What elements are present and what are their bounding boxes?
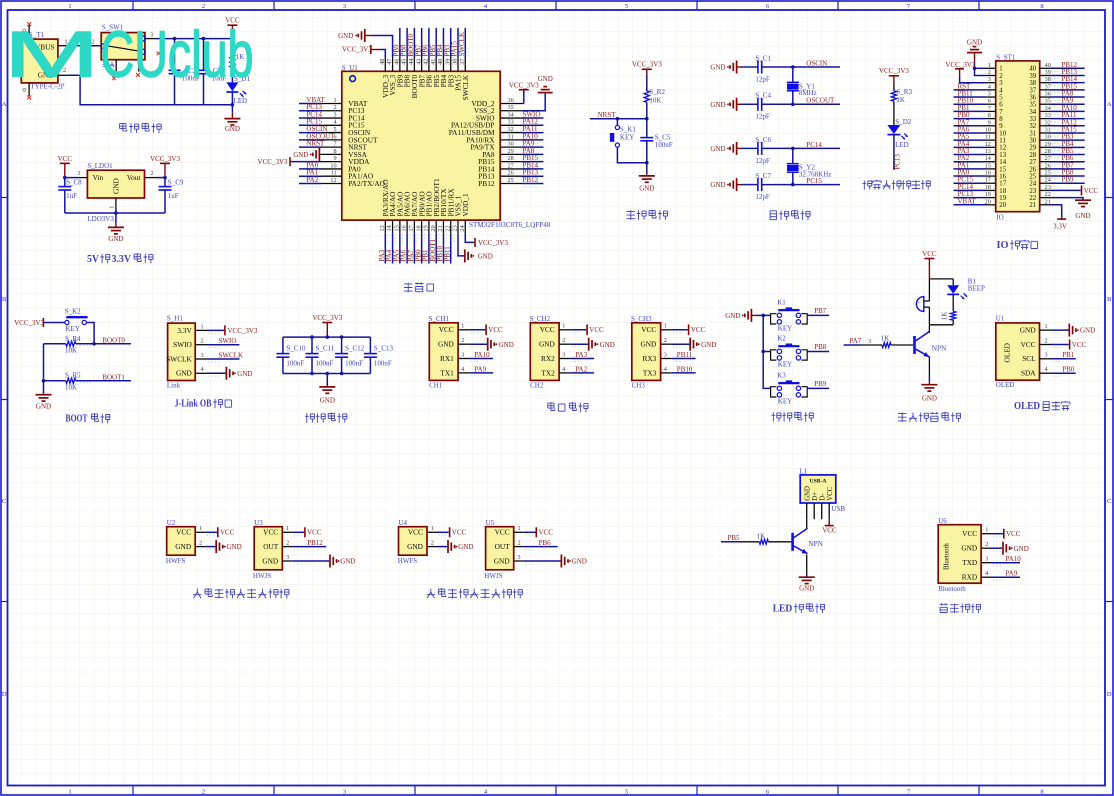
svg-text:VCC_3V3: VCC_3V3 <box>342 46 372 54</box>
svg-text:1: 1 <box>286 525 289 532</box>
serial header S_CH2 <box>530 323 559 381</box>
svg-text:1uF: 1uF <box>66 192 77 200</box>
svg-text:100nF: 100nF <box>655 141 673 149</box>
ST1 pin23 VCC <box>1040 189 1050 191</box>
wire T1 pin1 to SW1 <box>58 45 68 47</box>
svg-text:A: A <box>2 101 7 108</box>
svg-text:TX1: TX1 <box>440 368 454 377</box>
svg-text:29: 29 <box>1029 145 1036 152</box>
svg-text:Bluetooth: Bluetooth <box>938 585 966 593</box>
svg-text:CH1: CH1 <box>429 381 443 389</box>
svg-text:U6: U6 <box>938 517 947 525</box>
svg-text:S_LDO1: S_LDO1 <box>87 162 113 170</box>
svg-text:S_R5: S_R5 <box>65 372 81 380</box>
svg-text:GND: GND <box>176 369 192 378</box>
wire K3 to PB9 <box>807 387 829 389</box>
svg-text:33: 33 <box>1029 116 1036 123</box>
svg-text:KEY: KEY <box>66 325 80 333</box>
svg-text:100nF: 100nF <box>286 359 304 367</box>
svg-text:S_R2: S_R2 <box>649 88 665 96</box>
svg-text:S_H1: S_H1 <box>167 315 183 323</box>
GND rail wire <box>65 212 165 214</box>
svg-text:S_C1: S_C1 <box>755 54 771 62</box>
caption dianyuan-dianlu <box>120 123 127 131</box>
ST1 right pins <box>1040 67 1050 69</box>
svg-text:+: + <box>917 301 920 307</box>
svg-text:VCC_3V3: VCC_3V3 <box>14 319 44 327</box>
ground filter <box>326 374 328 386</box>
svg-text:PB12: PB12 <box>307 539 323 547</box>
svg-text:PB10: PB10 <box>677 365 693 373</box>
svg-text:GND: GND <box>710 145 725 153</box>
svg-text:24: 24 <box>1029 181 1036 188</box>
svg-text:LED: LED <box>234 97 248 105</box>
svg-text:1: 1 <box>461 323 464 330</box>
svg-text:GND: GND <box>1014 545 1029 553</box>
svg-text:32: 32 <box>508 126 514 133</box>
svg-text:12pF: 12pF <box>755 75 770 83</box>
svg-text:GND: GND <box>600 341 615 349</box>
wire D1 to GND <box>231 93 233 113</box>
caption bluetooth module <box>940 603 948 612</box>
S_CH3 pin4 PB10 <box>672 372 696 374</box>
switch SW1 <box>101 33 145 60</box>
svg-text:STM32F103C8T6_LQFP48: STM32F103C8T6_LQFP48 <box>469 221 551 229</box>
U2 pin1 VCC <box>205 531 217 533</box>
caption key circuit <box>772 412 782 422</box>
svg-text:4: 4 <box>562 366 565 373</box>
svg-text:1K: 1K <box>757 532 766 540</box>
svg-text:34: 34 <box>1029 109 1036 116</box>
svg-text:KEY: KEY <box>778 324 792 332</box>
svg-text:S_CH3: S_CH3 <box>631 315 652 323</box>
svg-text:PA9: PA9 <box>1005 570 1017 578</box>
svg-text:3.3V: 3.3V <box>177 326 192 335</box>
svg-text:3: 3 <box>1044 352 1047 359</box>
svg-text:8: 8 <box>1040 789 1043 796</box>
svg-text:VCC: VCC <box>439 325 454 334</box>
svg-text:2: 2 <box>461 337 464 344</box>
svg-text:U2: U2 <box>167 519 176 527</box>
ground keys <box>750 309 752 322</box>
svg-text:100nF: 100nF <box>345 359 363 367</box>
power VCC <box>227 24 237 26</box>
filter top rail <box>283 336 371 338</box>
svg-text:BOOT1: BOOT1 <box>102 373 125 381</box>
alarm top rail <box>929 278 953 280</box>
U3 pin3 GND <box>292 560 329 562</box>
S_CH2 pin3 PA3 <box>570 358 594 360</box>
svg-text:4: 4 <box>999 87 1003 94</box>
svg-text:GND: GND <box>494 556 510 565</box>
svg-text:GND: GND <box>539 340 555 349</box>
svg-text:2: 2 <box>202 3 205 10</box>
caption IR module 1 <box>193 589 201 598</box>
module U3 HWJS <box>254 527 282 570</box>
svg-text:K2: K2 <box>777 335 786 343</box>
svg-text:8: 8 <box>334 148 337 155</box>
svg-text:B: B <box>2 296 7 303</box>
resistor R3 1K <box>891 91 896 101</box>
svg-text:OSCIN: OSCIN <box>806 59 827 67</box>
caption main chip <box>404 283 413 292</box>
svg-text:PA2/TX/AO: PA2/TX/AO <box>348 179 385 188</box>
svg-text:VCC: VCC <box>1021 340 1036 349</box>
svg-text:PB12: PB12 <box>478 179 495 188</box>
svg-text:1: 1 <box>68 789 71 796</box>
svg-text:VCC_3V3: VCC_3V3 <box>312 314 342 322</box>
svg-text:PC13: PC13 <box>894 153 902 169</box>
svg-text:3: 3 <box>562 351 565 358</box>
svg-text:GND: GND <box>407 542 423 551</box>
svg-text:36: 36 <box>1029 94 1036 101</box>
svg-text:VCC_3V3: VCC_3V3 <box>509 82 539 90</box>
svg-text:GND: GND <box>725 312 740 320</box>
svg-text:S_CH2: S_CH2 <box>530 315 551 323</box>
caption program run indicator <box>863 180 872 189</box>
svg-text:IO: IO <box>996 214 1003 222</box>
capacitor C3 10uF <box>203 39 205 71</box>
svg-text:VCC: VCC <box>540 325 555 334</box>
svg-text:GND: GND <box>175 542 191 551</box>
svg-text:M: M <box>4 17 100 90</box>
svg-text:10K: 10K <box>649 97 661 105</box>
svg-text:VCC: VCC <box>589 326 604 334</box>
svg-text:GND: GND <box>967 38 982 46</box>
svg-text:VCC: VCC <box>691 326 706 334</box>
svg-text:NRST: NRST <box>598 111 617 119</box>
wire T1 pin2 to GND rail <box>58 74 68 76</box>
LDO pin1 to rail <box>115 198 117 208</box>
svg-text:VDD_1: VDD_1 <box>461 193 470 216</box>
svg-text:SWIO: SWIO <box>219 337 237 345</box>
svg-text:PB5: PB5 <box>728 534 741 542</box>
svg-text:9: 9 <box>334 155 337 162</box>
ground for LDO <box>115 213 117 223</box>
L1 VCC pin <box>828 519 830 525</box>
svg-text:PB7: PB7 <box>814 307 827 315</box>
svg-text:10K: 10K <box>65 346 77 354</box>
svg-text:4: 4 <box>1044 366 1047 373</box>
OLED pin3 PB1 <box>1051 358 1076 360</box>
svg-text:13: 13 <box>999 152 1006 159</box>
svg-text:D-: D- <box>820 493 827 501</box>
svg-text:25: 25 <box>1029 173 1036 180</box>
svg-text:VCC: VCC <box>1006 530 1021 538</box>
svg-text:U1: U1 <box>996 314 1005 322</box>
svg-text:5V: 5V <box>87 254 99 265</box>
U6 pin3 PA10 <box>992 562 1020 564</box>
svg-text:OLED: OLED <box>1014 401 1040 412</box>
svg-text:31: 31 <box>1029 130 1036 137</box>
svg-text:3: 3 <box>985 556 988 563</box>
svg-text:3: 3 <box>200 352 203 359</box>
svg-text:TX2: TX2 <box>541 368 555 377</box>
S_CH3 pin2 GND <box>672 343 690 345</box>
svg-text:PB9: PB9 <box>814 380 827 388</box>
svg-text:PA7: PA7 <box>850 337 862 345</box>
net NRST wire <box>590 118 647 120</box>
svg-text:GND: GND <box>639 185 654 193</box>
wire D2 to PC13 <box>893 135 895 170</box>
svg-text:VCC: VCC <box>962 529 977 538</box>
svg-text:PB6: PB6 <box>539 539 552 547</box>
svg-text:VCC: VCC <box>1072 341 1087 349</box>
svg-text:2: 2 <box>1044 337 1047 344</box>
wire K2 to PB8 <box>807 351 829 353</box>
S_CH2 pin1 VCC <box>570 329 586 331</box>
svg-text:39: 39 <box>1029 73 1036 80</box>
svg-text:GND: GND <box>237 370 252 378</box>
svg-text:PA2: PA2 <box>306 176 318 184</box>
svg-text:12: 12 <box>999 145 1006 152</box>
svg-text:8MHz: 8MHz <box>799 89 817 97</box>
svg-text:U4: U4 <box>399 519 408 527</box>
svg-text:S_C9: S_C9 <box>168 179 184 187</box>
svg-text:GND: GND <box>108 235 123 243</box>
svg-text:GND: GND <box>225 125 240 133</box>
svg-text:15: 15 <box>999 166 1006 173</box>
svg-text:BEEP: BEEP <box>968 284 985 292</box>
connector L1 USB-A <box>800 475 836 503</box>
svg-text:CH3: CH3 <box>632 381 646 389</box>
svg-text:GND: GND <box>320 396 335 404</box>
OLED pin4 PB0 <box>1051 372 1076 374</box>
svg-text:GND: GND <box>338 32 353 40</box>
svg-text:PA2: PA2 <box>575 365 587 373</box>
svg-text:VCC_3V3: VCC_3V3 <box>478 239 508 247</box>
svg-text:22: 22 <box>1029 195 1036 202</box>
svg-text:10K: 10K <box>65 383 77 391</box>
svg-text:S_C8: S_C8 <box>66 179 82 187</box>
svg-text:NPN: NPN <box>808 539 823 548</box>
svg-text:3: 3 <box>77 170 80 177</box>
svg-text:1: 1 <box>985 527 988 534</box>
svg-text:100nF: 100nF <box>374 359 392 367</box>
svg-text:S_R3: S_R3 <box>896 88 912 96</box>
svg-text:1: 1 <box>200 323 203 330</box>
svg-text:2: 2 <box>562 337 565 344</box>
svg-text:100nF: 100nF <box>316 359 334 367</box>
svg-text:GND: GND <box>36 403 51 411</box>
svg-text:12pF: 12pF <box>755 113 770 121</box>
module U5 HWJS <box>486 527 514 570</box>
header ST1 IO expansion <box>996 61 1040 212</box>
svg-text:S_D2: S_D2 <box>895 118 911 126</box>
svg-text:28: 28 <box>508 155 514 162</box>
left trunk wire <box>43 344 45 394</box>
svg-text:K1: K1 <box>777 298 786 306</box>
svg-text:14: 14 <box>999 159 1006 166</box>
svg-text:RX1: RX1 <box>440 354 454 363</box>
U5 pin2 OUT PB6 <box>524 546 558 548</box>
capacitor C8 1uF <box>64 178 66 187</box>
U3 pin1 VCC <box>292 531 304 533</box>
svg-text:C: C <box>2 498 6 505</box>
svg-text:VCC: VCC <box>1084 187 1099 195</box>
svg-text:PB9: PB9 <box>1062 176 1075 184</box>
svg-text:12pF: 12pF <box>755 193 770 201</box>
module U6 Bluetooth <box>938 525 981 584</box>
svg-text:S_C10: S_C10 <box>286 345 306 353</box>
svg-text:PB8: PB8 <box>814 343 827 351</box>
svg-text:S_C12: S_C12 <box>345 345 365 353</box>
svg-text:GND: GND <box>572 558 587 566</box>
svg-text:VCC_3V3: VCC_3V3 <box>879 67 909 75</box>
svg-text:2: 2 <box>200 338 203 345</box>
H1 pin2 SWIO <box>207 344 239 346</box>
H1 pin3 SWCLK <box>207 358 239 360</box>
svg-text:17: 17 <box>999 181 1006 188</box>
pushbutton K1 KEY <box>616 119 618 126</box>
capacitor C5 100nF <box>646 119 648 138</box>
svg-text:1K: 1K <box>940 312 948 321</box>
wire SW1 pin3 to VCC node <box>145 38 156 40</box>
svg-text:3: 3 <box>517 554 520 561</box>
svg-text:SWCLK: SWCLK <box>166 354 192 363</box>
svg-text:GND: GND <box>710 181 725 189</box>
svg-text:U5: U5 <box>486 519 495 527</box>
svg-text:SCL: SCL <box>1022 354 1036 363</box>
H1 pin4 GND <box>207 372 226 374</box>
svg-text:2: 2 <box>517 540 520 547</box>
svg-text:GND: GND <box>499 341 514 349</box>
svg-text:19: 19 <box>999 195 1006 202</box>
svg-text:S_K1: S_K1 <box>620 125 636 133</box>
svg-text:PB1: PB1 <box>1062 351 1075 359</box>
svg-text:29: 29 <box>508 148 514 155</box>
regulator LDO1 <box>87 170 144 198</box>
svg-text:VCC_3V3: VCC_3V3 <box>632 61 662 69</box>
svg-text:4: 4 <box>664 366 667 373</box>
module U4 HWFS <box>399 527 428 556</box>
svg-text:28: 28 <box>1029 152 1036 159</box>
caption filter circuit <box>305 413 315 423</box>
ST1 pin21 3.3V <box>1040 204 1050 206</box>
svg-text:GND: GND <box>805 486 812 501</box>
svg-text:GND: GND <box>710 101 725 109</box>
capacitor S_C10 100nF <box>282 337 284 354</box>
svg-text:A: A <box>1107 101 1112 108</box>
svg-text:4: 4 <box>200 366 203 373</box>
U6 pin1 VCC <box>992 533 1003 535</box>
svg-text:3.3V: 3.3V <box>1053 222 1067 230</box>
buzzer <box>916 297 923 312</box>
ST1 left pins <box>954 89 986 91</box>
U5 pin3 GND <box>524 560 561 562</box>
T1 bottom pin <box>28 83 30 96</box>
svg-text:31: 31 <box>508 133 514 140</box>
serial header S_CH1 <box>429 323 458 381</box>
crystal Y1 8MHz <box>792 67 794 82</box>
svg-text:J-Link OB: J-Link OB <box>175 399 212 410</box>
serial header S_CH3 <box>632 323 661 381</box>
svg-text:4: 4 <box>985 570 988 577</box>
svg-text:VCC: VCC <box>827 486 834 500</box>
svg-text:1: 1 <box>108 206 115 209</box>
svg-text:SDA: SDA <box>1021 369 1036 378</box>
svg-text:3: 3 <box>343 3 346 10</box>
svg-text:PC14: PC14 <box>806 141 822 149</box>
svg-text:PA3: PA3 <box>575 351 587 359</box>
svg-text:S_C7: S_C7 <box>755 172 771 180</box>
svg-text:VCC: VCC <box>495 528 510 537</box>
svg-text:Vout: Vout <box>127 173 141 182</box>
display U1 OLED <box>996 323 1040 380</box>
wire VCC to LDO Vin <box>65 177 78 179</box>
svg-text:C: C <box>1107 498 1111 505</box>
svg-text:S_C4: S_C4 <box>755 92 771 100</box>
S_CH1 pin1 VCC <box>469 329 485 331</box>
svg-text:32: 32 <box>1029 123 1036 130</box>
svg-text:D+: D+ <box>812 492 819 501</box>
crystal Y2 32.768KHz <box>792 148 794 163</box>
transistor NPN alarm <box>844 344 860 346</box>
U5 pin1 VCC <box>524 531 536 533</box>
svg-text:2: 2 <box>199 540 202 547</box>
svg-text:GND: GND <box>458 543 473 551</box>
svg-text:1: 1 <box>664 323 667 330</box>
svg-text:11: 11 <box>999 138 1006 145</box>
resistor R2 10K <box>644 91 649 103</box>
resistor R1 1K <box>231 39 233 54</box>
svg-text:GND: GND <box>340 558 355 566</box>
svg-text:VBAT: VBAT <box>958 197 977 205</box>
svg-text:3: 3 <box>999 80 1003 87</box>
svg-text:HWJS: HWJS <box>253 572 271 580</box>
svg-text:GND: GND <box>293 151 308 159</box>
svg-text:VCC: VCC <box>539 529 554 537</box>
svg-text:21: 21 <box>1029 202 1036 209</box>
svg-text:2: 2 <box>202 789 205 796</box>
capacitor C2 100nF <box>174 39 176 71</box>
svg-text:U3: U3 <box>254 519 263 527</box>
U4 pin2 GND <box>437 546 447 548</box>
OLED pin2 VCC <box>1051 344 1069 346</box>
U6 pin2 GND <box>992 547 1002 549</box>
collector wire to L1 GND pin <box>806 519 808 528</box>
svg-text:3: 3 <box>664 351 667 358</box>
capacitor S_C12 100nF <box>341 337 343 354</box>
power VCC_3V3 reset <box>642 68 652 70</box>
svg-text:27: 27 <box>1029 159 1036 166</box>
svg-text:1: 1 <box>562 323 565 330</box>
svg-text:6: 6 <box>999 102 1003 109</box>
svg-text:Link: Link <box>167 382 181 390</box>
keys trunk wire <box>763 315 770 388</box>
svg-text:9: 9 <box>999 123 1003 130</box>
svg-text:VCC: VCC <box>822 526 837 534</box>
svg-text:RX2: RX2 <box>541 354 555 363</box>
MCU U1 STM32F103C8T6 <box>342 71 500 220</box>
svg-text:KEY: KEY <box>778 361 792 369</box>
svg-text:GND: GND <box>710 64 725 72</box>
caption reset circuit <box>626 210 635 220</box>
U2 pin2 GND <box>205 546 215 548</box>
svg-text:2: 2 <box>985 541 988 548</box>
svg-text:1uF: 1uF <box>168 192 179 200</box>
caption alarm circuit <box>898 413 907 423</box>
svg-text:GND: GND <box>799 585 814 593</box>
svg-text:PA10: PA10 <box>474 351 490 359</box>
svg-text:SWCLK: SWCLK <box>219 351 244 359</box>
capacitor S_C6 12pF row <box>736 142 738 155</box>
power VCC_3V3 at LDO output <box>160 162 170 164</box>
svg-text:GND: GND <box>262 556 278 565</box>
svg-text:4: 4 <box>461 366 464 373</box>
svg-text:VCC: VCC <box>307 529 322 537</box>
svg-text:1: 1 <box>431 525 434 532</box>
